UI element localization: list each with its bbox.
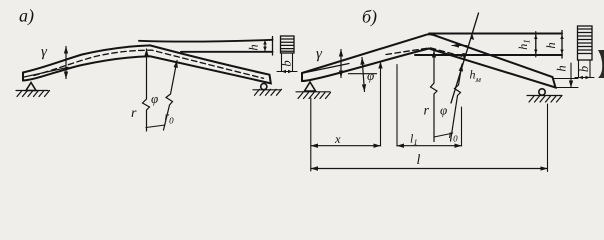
reference bar (initial straight beam) top edge bbox=[139, 40, 273, 42]
svg-text:h: h bbox=[544, 42, 558, 48]
initial-position reference line (fig b) bbox=[303, 64, 349, 74]
dimension b line bbox=[277, 71, 297, 73]
gamma double arrow (fig b) bbox=[340, 50, 342, 78]
tick between r and r0 bbox=[146, 125, 165, 128]
radius r0 line (with break) bbox=[164, 61, 178, 131]
l1 extension lines bbox=[396, 65, 398, 147]
beam (bent, curved) outline bbox=[23, 45, 271, 83]
dimension h (bar height, fig a) bbox=[264, 40, 266, 50]
svg-text:а): а) bbox=[19, 6, 34, 26]
beam end h dimension line bbox=[570, 63, 572, 88]
tick between r and r0 (fig b) bbox=[434, 134, 451, 138]
bar bottom edge bbox=[415, 54, 562, 56]
x right extension line (arrow to beam) bbox=[380, 62, 382, 147]
radius r0 line fig b (with break) bbox=[451, 64, 463, 141]
reference bar right edge bbox=[272, 37, 274, 56]
bar (initial straight beam) top edge bbox=[429, 33, 562, 35]
pinned support (left, fig b) bbox=[305, 82, 316, 91]
l1 dimension line bbox=[397, 145, 462, 147]
dimension b line bbox=[575, 77, 594, 79]
svg-text:φ: φ bbox=[440, 103, 447, 118]
x dimension line bbox=[311, 145, 381, 147]
reference bar bottom edge bbox=[181, 51, 273, 53]
cross-section b (b x h), hatched bbox=[578, 26, 593, 60]
b extension lines bbox=[579, 60, 591, 78]
l extension line (right support) bbox=[547, 104, 549, 172]
svg-text:l: l bbox=[417, 153, 421, 168]
phi horizontal reference line bbox=[349, 73, 377, 75]
svg-text:x: x bbox=[334, 132, 341, 146]
x extension line (from left support) bbox=[310, 98, 312, 171]
beam end h dimension: extension lines bbox=[553, 79, 579, 88]
svg-text:r: r bbox=[131, 106, 137, 121]
h_m arrowheads bbox=[470, 34, 474, 40]
gamma angle double arrow bbox=[65, 47, 67, 79]
l dimension line bbox=[311, 168, 548, 170]
svg-text:φ: φ bbox=[151, 91, 158, 106]
bar right edge (dimension h line) bbox=[561, 31, 563, 59]
cross-section a (b x h), hatched bbox=[281, 36, 295, 53]
svg-text:б): б) bbox=[362, 7, 377, 27]
beam axis (dashed) bbox=[386, 48, 463, 57]
phi double arrow bbox=[362, 58, 365, 92]
b extension lines bbox=[282, 54, 293, 72]
svg-text:h: h bbox=[247, 44, 261, 50]
ground line + hatching bbox=[16, 90, 48, 92]
svg-text:h: h bbox=[555, 65, 569, 71]
roller support (right, fig b) bbox=[539, 89, 545, 95]
svg-text:b: b bbox=[577, 66, 591, 72]
radius r line fig b (with break) bbox=[431, 51, 438, 142]
beam axis (dashed) bbox=[34, 50, 264, 78]
svg-text:r: r bbox=[424, 104, 430, 119]
svg-text:b: b bbox=[279, 60, 293, 66]
pinned support (left, fig a) bbox=[26, 83, 36, 91]
scan smudge at right page edge bbox=[598, 50, 604, 78]
beam (kinked, two tapered segments) outline bbox=[302, 34, 556, 87]
svg-text:φ: φ bbox=[367, 68, 374, 83]
h_m slanted dimension line bbox=[451, 13, 479, 103]
radius r line (with break) bbox=[143, 49, 150, 131]
bar axis arrow (short, left-pointing) bbox=[452, 45, 467, 47]
roller support (right, fig a) bbox=[261, 84, 267, 90]
dimension h1 line (in bar) bbox=[535, 35, 537, 54]
initial-position reference line at left end bbox=[24, 67, 68, 77]
